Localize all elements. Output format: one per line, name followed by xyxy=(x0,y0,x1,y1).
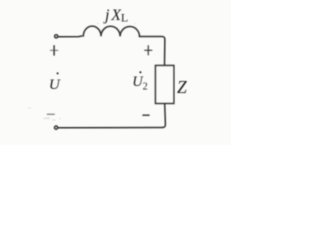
label U source voltage with dot xyxy=(49,72,61,93)
impedance box Z xyxy=(156,66,174,104)
label Z xyxy=(177,77,187,97)
polarity plus of U source xyxy=(50,45,58,55)
scan speckles (noise) xyxy=(28,23,136,121)
terminal top-left xyxy=(55,35,58,38)
polarity plus of U2 xyxy=(144,45,152,55)
terminal bottom-left xyxy=(55,126,58,129)
label jXL xyxy=(103,7,128,25)
wire right vertical lower xyxy=(162,104,165,128)
wire top-right xyxy=(140,37,165,40)
svg-text:2: 2 xyxy=(143,82,148,93)
wire top-left xyxy=(59,35,82,38)
svg-text:U: U xyxy=(49,76,61,93)
svg-text:Z: Z xyxy=(177,77,187,97)
inductor L coil xyxy=(83,26,139,36)
wire bottom xyxy=(58,127,162,129)
polarity minus of U2 xyxy=(142,114,149,116)
label U2 with dot xyxy=(132,71,147,92)
svg-text:jX: jX xyxy=(103,7,123,24)
svg-text:L: L xyxy=(121,11,128,25)
polarity minus of U source xyxy=(47,113,55,115)
wire right vertical upper xyxy=(164,39,166,65)
